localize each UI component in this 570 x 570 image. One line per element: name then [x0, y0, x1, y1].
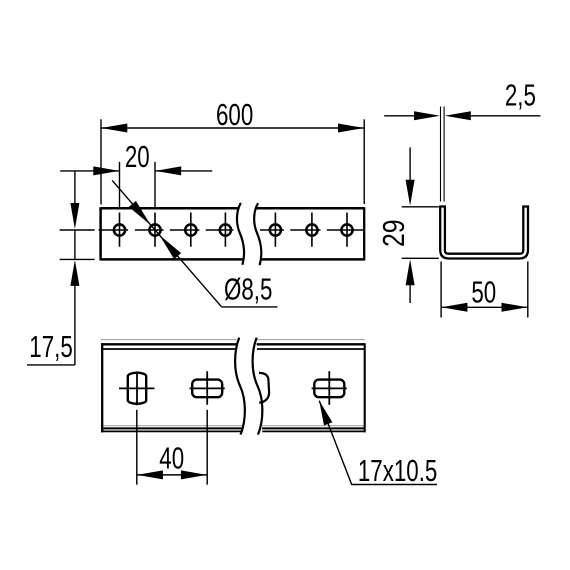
hole 4 [220, 224, 231, 235]
svg-text:17,5: 17,5 [29, 329, 72, 363]
channel profile outer contour [439, 207, 529, 259]
left edge [101, 343, 103, 432]
bottom inner edge [101, 427, 365, 429]
slot 2 (horizontal 17x10.5) [192, 380, 222, 398]
bar top edge [101, 207, 365, 210]
svg-text:40: 40 [159, 441, 184, 475]
slot 3 crosshair [312, 371, 347, 405]
faint flange lines [101, 340, 365, 426]
hole 7 [341, 224, 352, 235]
slot 1 crosshair [119, 371, 155, 405]
dimension 17,5 [27, 171, 95, 365]
hole vertical crosshairs [120, 213, 348, 247]
svg-text:2,5: 2,5 [505, 78, 536, 112]
break line S1 [235, 338, 245, 435]
svg-text:29: 29 [376, 219, 410, 247]
bottom outer edge [101, 430, 365, 432]
leader 17x10.5 [319, 401, 437, 485]
slot 1 extension to 40 dim [136, 410, 138, 485]
dimension 600 [101, 119, 364, 204]
svg-text:Ø8,5: Ø8,5 [224, 272, 272, 306]
extension lines for 2,5 [441, 107, 445, 202]
bar left edge [99, 207, 102, 260]
slot 2 extension to 40 dim [206, 410, 208, 485]
svg-text:50: 50 [471, 275, 496, 309]
partial slot at break [259, 373, 269, 403]
horizontal centerline through holes [60, 229, 364, 231]
hole 2 [149, 224, 160, 235]
break line S2 [254, 203, 261, 265]
dimension 40 [137, 474, 207, 476]
channel profile inner contour [445, 207, 523, 254]
break line S2 [253, 338, 263, 435]
dimension 29 [402, 147, 439, 303]
bar bottom edge [101, 258, 365, 261]
flange tip caps [439, 205, 529, 207]
hole 6 [306, 224, 317, 235]
slot 2 crosshair [190, 371, 225, 405]
svg-text:20: 20 [125, 139, 150, 173]
diameter leader Ø8,5 through hole 2 [112, 180, 277, 307]
dimension 50 [441, 262, 528, 318]
svg-text:17x10.5: 17x10.5 [358, 454, 437, 488]
top outer edge [101, 343, 365, 345]
slot 1 (vertical 10.5x17) [128, 373, 146, 404]
bar right edge [363, 207, 365, 260]
top inner edge [101, 348, 365, 350]
break line S1 [237, 203, 244, 265]
hole 3 [185, 224, 196, 235]
right edge [364, 343, 366, 432]
slot 3 (horizontal 17x10.5) [314, 380, 344, 398]
dimension 20 [60, 162, 212, 208]
hole 1 [114, 224, 125, 235]
hole 5 [270, 224, 281, 235]
svg-text:600: 600 [216, 97, 253, 131]
dimension 2,5 [384, 115, 540, 117]
